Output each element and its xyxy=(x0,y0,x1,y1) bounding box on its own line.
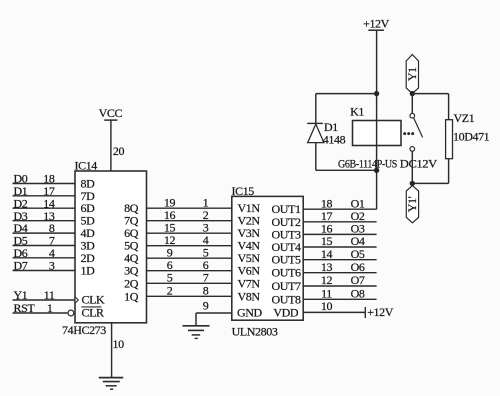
clock input triangle xyxy=(75,297,78,303)
svg-text:OUT6: OUT6 xyxy=(272,266,301,280)
switch blade xyxy=(414,118,423,138)
pin label 5Q xyxy=(124,239,139,253)
pin number 3 xyxy=(49,259,55,273)
svg-text:VZ1: VZ1 xyxy=(454,111,475,125)
wire diode branch bottom xyxy=(316,143,377,171)
node D4 xyxy=(14,221,28,235)
wire VCC to IC14 pin 20 xyxy=(110,120,112,171)
svg-text:O7: O7 xyxy=(351,273,365,287)
wire node RST to CLR xyxy=(13,312,69,314)
pin label CLK xyxy=(82,293,106,307)
pin label CLR xyxy=(82,306,105,320)
node D2 xyxy=(14,196,28,210)
pin label 4Q xyxy=(124,251,139,265)
wire diode branch top xyxy=(316,94,377,124)
pin number 4 xyxy=(49,246,55,260)
pin label 2Q xyxy=(124,276,139,290)
svg-text:CLK: CLK xyxy=(82,293,106,307)
junction node Y1 xyxy=(410,91,414,95)
pin label OUT8 xyxy=(272,292,301,306)
svg-text:IC15: IC15 xyxy=(232,184,255,198)
label VZ1 xyxy=(454,111,475,125)
pin label 2D xyxy=(81,251,96,265)
wire OUT6 to O6 xyxy=(303,272,376,274)
svg-text:CLR: CLR xyxy=(82,306,105,320)
node D3 xyxy=(14,209,28,223)
node O8 xyxy=(351,287,365,301)
svg-text:O8: O8 xyxy=(351,287,365,301)
pin number 15 xyxy=(164,220,176,234)
svg-text:1: 1 xyxy=(47,301,53,315)
pin number 17 xyxy=(43,184,55,198)
node RST xyxy=(14,301,36,315)
pin number 18 xyxy=(43,172,55,186)
pin number 8 xyxy=(49,221,55,235)
wire Y1 to switch xyxy=(411,94,413,114)
pin number 17 xyxy=(321,209,333,223)
pin label 4D xyxy=(81,226,96,240)
svg-text:OUT8: OUT8 xyxy=(272,292,301,306)
relay part number G6B-1114P-US DC12V xyxy=(338,158,438,170)
svg-text:Y1': Y1' xyxy=(405,196,419,212)
node O5 xyxy=(351,247,365,261)
svg-text:14: 14 xyxy=(321,247,333,261)
pin label 5D xyxy=(81,214,96,228)
svg-text:G6B-1114P-US: G6B-1114P-US xyxy=(338,158,397,170)
value 4148 xyxy=(323,132,346,146)
wire 3Q to V6N xyxy=(147,270,232,272)
pin number 9 xyxy=(203,299,209,313)
pin label VDD xyxy=(273,305,299,319)
svg-text:O6: O6 xyxy=(351,260,365,274)
svg-text:VCC: VCC xyxy=(99,106,123,120)
node D1 xyxy=(14,184,28,198)
node O3 xyxy=(351,222,365,236)
pin number 16 xyxy=(164,208,176,222)
svg-text:2: 2 xyxy=(167,284,173,298)
wire input D6 xyxy=(13,257,76,259)
relay K1 coil body xyxy=(353,121,402,146)
value 10D471 xyxy=(453,129,490,143)
pin number 11 xyxy=(321,287,332,301)
wire OUT8 to O8 xyxy=(303,298,376,300)
pin number 12 xyxy=(164,233,176,247)
pin number 1 xyxy=(203,195,209,209)
svg-text:5: 5 xyxy=(167,271,173,285)
pin number 19 xyxy=(164,195,176,209)
svg-text:Y1: Y1 xyxy=(14,288,28,302)
svg-text:V7N: V7N xyxy=(238,276,261,290)
wire 1Q to V8N xyxy=(147,295,232,297)
relay contact switch bottom terminal xyxy=(410,147,415,152)
node Y1 xyxy=(14,288,28,302)
pin number 15 xyxy=(321,234,333,248)
svg-text:12: 12 xyxy=(321,273,333,287)
svg-text:+12V: +12V xyxy=(363,17,390,31)
pin label OUT7 xyxy=(272,279,301,293)
wire OUT4 to O4 xyxy=(303,246,376,248)
pin number 5 xyxy=(167,271,173,285)
wire +12V rail through relay coil xyxy=(376,30,378,209)
pin number 5 xyxy=(203,245,209,259)
wire input D2 xyxy=(13,207,76,209)
pin label 1Q xyxy=(124,289,139,303)
node D7 xyxy=(14,259,28,273)
svg-text:V8N: V8N xyxy=(238,289,261,303)
wire OUT1 to O1 xyxy=(303,208,376,210)
label IC14 xyxy=(75,159,98,173)
pin number 13 xyxy=(43,209,55,223)
pin number 8 xyxy=(203,284,209,298)
node D6 xyxy=(14,246,28,260)
inversion bubble on CLR xyxy=(68,310,74,316)
pin number 14 xyxy=(43,196,55,210)
pin label 1D xyxy=(81,264,96,278)
wire IC14 pin 10 to ground xyxy=(111,323,113,378)
node D0 xyxy=(14,172,28,186)
pin number 2 xyxy=(167,284,173,298)
svg-text:74HC273: 74HC273 xyxy=(62,323,106,337)
svg-text:2Q: 2Q xyxy=(124,276,139,290)
svg-text:IC14: IC14 xyxy=(75,159,98,173)
wire varistor branch bottom xyxy=(412,159,448,184)
node O4 xyxy=(351,234,365,248)
pin number 6 xyxy=(167,258,173,272)
ground symbol below IC15 xyxy=(183,326,210,339)
varistor VZ1 body xyxy=(446,120,453,159)
part number ULN2803 xyxy=(232,325,278,339)
svg-text:OUT7: OUT7 xyxy=(272,279,301,293)
pin label 3Q xyxy=(124,264,139,278)
svg-text:Y1: Y1 xyxy=(405,67,419,81)
pin label 6D xyxy=(81,201,96,215)
connector Y1 xyxy=(405,55,419,94)
wire IC15 GND pin 9 xyxy=(196,313,232,326)
pin number 2 xyxy=(203,208,209,222)
pin label V4N xyxy=(238,239,261,253)
svg-text:+12V: +12V xyxy=(367,305,394,319)
IC U14 74HC273 body xyxy=(75,171,147,323)
node O1 xyxy=(351,196,365,210)
pin label 8Q xyxy=(124,201,139,215)
pin label V2N xyxy=(238,214,261,228)
svg-text:20: 20 xyxy=(113,144,125,158)
pin number 16 xyxy=(321,222,333,236)
power flag +12V at VDD xyxy=(365,305,393,319)
node O7 xyxy=(351,273,365,287)
pin number 11 xyxy=(44,288,55,302)
wire 7Q to V2N xyxy=(147,220,232,222)
pin number 18 xyxy=(321,196,333,210)
pin label V5N xyxy=(238,251,261,265)
svg-text:VDD: VDD xyxy=(273,305,299,319)
pin label 6Q xyxy=(124,226,139,240)
pin label V7N xyxy=(238,276,261,290)
pin label OUT2 xyxy=(272,215,301,229)
wire input D5 xyxy=(13,245,76,247)
wire input D3 xyxy=(13,220,76,222)
pin label V3N xyxy=(238,226,261,240)
svg-text:3: 3 xyxy=(49,259,55,273)
pin label OUT5 xyxy=(272,253,301,267)
ground symbol below IC14 xyxy=(99,378,123,390)
pin label V1N xyxy=(238,201,261,215)
part number 74HC273 xyxy=(62,323,106,337)
wire IC15 VDD pin 10 to +12V xyxy=(303,311,365,313)
svg-text:8: 8 xyxy=(203,284,209,298)
pin label OUT1 xyxy=(272,202,301,216)
label K1 xyxy=(350,104,364,118)
pin label GND xyxy=(237,306,263,320)
wire 5Q to V4N xyxy=(147,245,232,247)
svg-text:D7: D7 xyxy=(14,259,28,273)
svg-text:DC12V: DC12V xyxy=(400,158,438,170)
svg-text:10: 10 xyxy=(113,337,125,351)
wire OUT7 to O7 xyxy=(303,285,376,287)
junction node top of coil xyxy=(374,91,378,95)
IC U15 ULN2803 body xyxy=(232,196,303,320)
overline of CLR xyxy=(81,306,101,308)
junction node bottom of coil xyxy=(374,168,378,172)
svg-text:K1: K1 xyxy=(350,104,364,118)
label D1 xyxy=(324,120,338,134)
pin number 20 xyxy=(113,144,125,158)
wire switch to junction xyxy=(411,151,413,183)
pin label 8D xyxy=(81,177,96,191)
wire 6Q to V3N xyxy=(147,232,232,234)
pin label OUT6 xyxy=(272,266,301,280)
node O2 xyxy=(351,209,365,223)
pin number 3 xyxy=(203,220,209,234)
label IC15 xyxy=(232,184,255,198)
pin number 13 xyxy=(321,260,333,274)
power flag VCC xyxy=(99,106,123,120)
svg-text:9: 9 xyxy=(203,299,209,313)
svg-text:1Q: 1Q xyxy=(124,289,139,303)
svg-text:OUT5: OUT5 xyxy=(272,253,301,267)
wire OUT3 to O3 xyxy=(303,233,376,235)
pin number 6 xyxy=(203,258,209,272)
pin number 12 xyxy=(321,273,333,287)
pin number 14 xyxy=(321,247,333,261)
pin label 7D xyxy=(81,189,96,203)
pin label 3D xyxy=(81,239,96,253)
svg-text:4148: 4148 xyxy=(323,132,346,146)
junction node bottom xyxy=(410,181,414,185)
wire input D0 xyxy=(13,183,76,185)
wire OUT2 to O2 xyxy=(303,221,376,223)
wire input D7 xyxy=(13,270,76,272)
svg-text:RST: RST xyxy=(14,301,36,315)
pin number 10 xyxy=(321,299,333,313)
svg-text:GND: GND xyxy=(237,306,263,320)
svg-text:1D: 1D xyxy=(81,264,96,278)
node O6 xyxy=(351,260,365,274)
power flag +12V top xyxy=(363,17,390,31)
pin number 7 xyxy=(49,234,55,248)
pin number 1 xyxy=(47,301,53,315)
svg-text:ULN2803: ULN2803 xyxy=(232,325,278,339)
svg-text:13: 13 xyxy=(321,260,333,274)
relay contact switch top terminal xyxy=(410,113,415,118)
pin label V6N xyxy=(238,264,261,278)
pin number 7 xyxy=(203,271,209,285)
wire input D1 xyxy=(13,195,76,197)
wire 8Q to V1N xyxy=(147,207,232,209)
wire varistor branch top xyxy=(412,94,448,120)
pin label OUT3 xyxy=(272,227,301,241)
pin label OUT4 xyxy=(272,240,301,254)
wire 2Q to V7N xyxy=(147,282,232,284)
svg-text:11: 11 xyxy=(44,288,55,302)
pin number 4 xyxy=(203,233,209,247)
wire node Y1 to CLK xyxy=(13,299,76,301)
pin number 9 xyxy=(167,245,173,259)
pin label V8N xyxy=(238,289,261,303)
mechanical link dots xyxy=(404,133,414,135)
svg-text:7: 7 xyxy=(203,271,209,285)
connector Y1prime xyxy=(405,186,419,223)
svg-text:O5: O5 xyxy=(351,247,365,261)
diode D1 1N4148 xyxy=(307,123,324,142)
pin label 7Q xyxy=(124,214,139,228)
pin number 10 xyxy=(113,337,125,351)
svg-text:10D471: 10D471 xyxy=(453,129,490,143)
wire OUT5 to O5 xyxy=(303,259,376,261)
wire input D4 xyxy=(13,232,76,234)
svg-text:10: 10 xyxy=(321,299,333,313)
node D5 xyxy=(14,234,28,248)
wire 4Q to V5N xyxy=(147,257,232,259)
